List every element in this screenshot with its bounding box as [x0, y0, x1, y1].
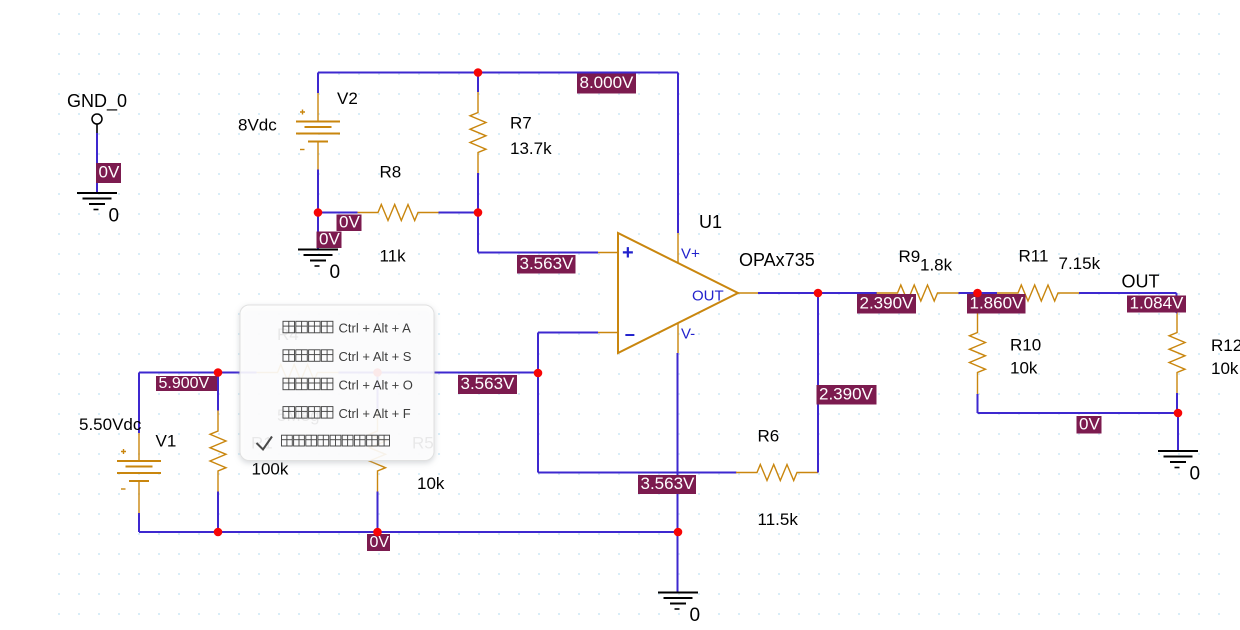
ground 0 — [1158, 451, 1200, 485]
svg-text:7.15k: 7.15k — [1059, 254, 1101, 273]
wire — [537, 333, 539, 473]
svg-text:10k: 10k — [1010, 359, 1038, 378]
wire — [318, 212, 358, 214]
svg-text:0V: 0V — [370, 534, 390, 551]
svg-text:OPAx735: OPAx735 — [739, 250, 815, 270]
value 100k — [252, 460, 289, 479]
wire — [139, 531, 678, 533]
node voltage label 1.860V — [967, 293, 1026, 313]
svg-text:0: 0 — [1190, 464, 1201, 485]
value 11k — [380, 247, 407, 266]
svg-text:100k: 100k — [252, 460, 289, 479]
node voltage label 2.390V — [857, 293, 916, 313]
value 10k — [417, 474, 445, 493]
value 7.15k — [1059, 254, 1101, 273]
menu item screen translate — [283, 406, 411, 421]
resistor R10 — [970, 293, 986, 395]
svg-text:Ctrl + Alt + F: Ctrl + Alt + F — [339, 406, 411, 421]
junction — [1174, 409, 1183, 418]
svg-text:R11: R11 — [1019, 247, 1049, 266]
value 1.8k — [920, 256, 953, 275]
svg-text:0V: 0V — [1079, 414, 1100, 433]
svg-text:Ctrl + Alt + S: Ctrl + Alt + S — [339, 349, 412, 364]
svg-text:1.084V: 1.084V — [1130, 294, 1185, 313]
menu item hide window checkbox — [257, 435, 390, 449]
svg-text:R6: R6 — [758, 427, 780, 446]
node voltage label 0V — [337, 212, 362, 231]
resistor R6 — [736, 465, 818, 481]
junction — [973, 289, 982, 298]
svg-text:R7: R7 — [510, 114, 532, 133]
value 5.50Vdc — [79, 415, 142, 434]
label V1 — [156, 432, 177, 451]
node voltage label 2.390V — [817, 384, 877, 404]
wire — [317, 213, 319, 250]
svg-text:3.563V: 3.563V — [641, 474, 696, 493]
junction — [214, 368, 223, 377]
svg-text:OUT: OUT — [1122, 272, 1160, 292]
wire — [677, 73, 679, 234]
node voltage label 3.563V — [638, 474, 696, 494]
wire — [477, 173, 479, 213]
svg-text:0: 0 — [690, 605, 701, 626]
label R12 — [1211, 336, 1240, 355]
wire — [138, 373, 140, 434]
wire — [217, 492, 219, 533]
label R11 — [1019, 247, 1049, 266]
resistor R1 — [210, 410, 226, 492]
svg-text:0: 0 — [330, 262, 341, 283]
node voltage label 0V — [96, 163, 121, 183]
label R8 — [380, 163, 402, 182]
net label OUT — [1122, 272, 1160, 292]
svg-text:3.563V: 3.563V — [520, 254, 575, 273]
wire — [1177, 413, 1179, 451]
wire — [138, 513, 140, 532]
wire — [217, 373, 219, 411]
resistor R9 — [877, 285, 959, 301]
value 5Meg — [277, 406, 320, 425]
svg-text:5.900V: 5.900V — [159, 375, 210, 392]
value 13.7k — [510, 139, 552, 158]
value OPAx735 — [739, 250, 815, 270]
menu item screen OCR — [283, 377, 413, 392]
wire — [677, 353, 679, 593]
wire — [758, 292, 877, 294]
label R10 — [1010, 336, 1041, 355]
svg-text:5.50Vdc: 5.50Vdc — [79, 415, 142, 434]
junction — [474, 208, 483, 217]
wire — [317, 170, 319, 213]
svg-text:V2: V2 — [337, 89, 358, 108]
svg-text:V1: V1 — [156, 432, 177, 451]
svg-text:+: + — [622, 242, 634, 264]
label R9 — [899, 247, 921, 266]
svg-text:V+: V+ — [681, 246, 700, 263]
node GND_0 bubble — [92, 114, 102, 133]
resistor R12 — [1169, 312, 1185, 394]
node voltage label 0V — [317, 229, 342, 248]
wire — [959, 292, 998, 294]
value 11.5k — [758, 510, 799, 529]
wire — [1176, 393, 1178, 414]
wire — [477, 73, 479, 93]
svg-text:U1: U1 — [699, 212, 722, 232]
svg-text:8.000V: 8.000V — [580, 73, 635, 92]
wire — [817, 293, 819, 473]
node voltage label 3.563V — [517, 254, 576, 274]
svg-text:8Vdc: 8Vdc — [238, 116, 277, 135]
svg-text:0: 0 — [109, 206, 120, 227]
value 10k — [1211, 359, 1239, 378]
junction — [814, 289, 823, 298]
label V2 — [337, 89, 358, 108]
svg-text:11.5k: 11.5k — [758, 510, 799, 529]
wire — [1176, 312, 1179, 314]
wire — [1079, 292, 1177, 294]
svg-text:GND_0: GND_0 — [67, 91, 127, 112]
svg-text:11k: 11k — [380, 247, 407, 266]
wire — [538, 332, 598, 334]
wire — [139, 372, 257, 374]
svg-text:2.390V: 2.390V — [819, 384, 874, 403]
ground 0 — [77, 193, 119, 227]
junction — [474, 68, 483, 77]
node voltage label 0V — [1077, 414, 1102, 433]
resistor R5 — [370, 410, 386, 492]
svg-text:R8: R8 — [380, 163, 402, 182]
label R4 — [277, 325, 299, 344]
net label GND_0 — [67, 91, 127, 112]
svg-text:10k: 10k — [1211, 359, 1239, 378]
junction — [373, 528, 382, 537]
wire — [377, 373, 379, 411]
menu item screen record — [283, 349, 412, 364]
svg-text:−: − — [625, 325, 636, 345]
resistor R7 — [470, 92, 486, 174]
svg-text:0V: 0V — [339, 212, 360, 231]
menu item screen capture — [283, 321, 411, 336]
node voltage label 0V — [367, 534, 390, 551]
label R5 — [412, 434, 434, 453]
svg-text:2.390V: 2.390V — [860, 293, 915, 312]
svg-text:Ctrl + Alt + O: Ctrl + Alt + O — [339, 377, 413, 392]
node voltage label 3.563V — [458, 374, 517, 394]
svg-text:V-: V- — [681, 326, 695, 343]
resistor R8 — [357, 205, 439, 221]
node voltage label 1.084V — [1127, 294, 1186, 313]
wire — [377, 492, 379, 533]
wire — [477, 213, 479, 253]
resistor R11 — [997, 285, 1079, 301]
resistor R4 — [257, 365, 339, 381]
svg-text:0V: 0V — [99, 163, 120, 182]
junction — [674, 528, 683, 537]
wire — [318, 72, 678, 74]
value 8Vdc — [238, 116, 277, 135]
wire — [439, 212, 479, 214]
dc source V1 — [117, 433, 161, 513]
svg-text:1.8k: 1.8k — [920, 256, 953, 275]
label R7 — [510, 114, 532, 133]
node voltage label 8.000V — [577, 73, 636, 93]
node voltage label 5.900V — [156, 375, 217, 392]
svg-text:R9: R9 — [899, 247, 921, 266]
svg-text:R10: R10 — [1010, 336, 1041, 355]
svg-text:OUT: OUT — [692, 288, 724, 305]
svg-text:0V: 0V — [319, 229, 340, 248]
label R1 — [251, 434, 273, 453]
wire — [317, 73, 319, 94]
svg-text:Ctrl + Alt + A: Ctrl + Alt + A — [339, 321, 412, 336]
value 10k — [1010, 359, 1038, 378]
svg-text:10k: 10k — [417, 474, 445, 493]
svg-text:3.563V: 3.563V — [461, 374, 516, 393]
dc source V2 — [296, 93, 340, 170]
wire — [978, 412, 1179, 414]
label R6 — [758, 427, 780, 446]
wire — [339, 372, 539, 374]
wire — [1176, 293, 1178, 313]
junction — [373, 368, 382, 377]
wire — [977, 394, 979, 413]
junction — [534, 369, 543, 378]
svg-text:R12: R12 — [1211, 336, 1240, 355]
wire — [538, 472, 737, 474]
junction — [314, 208, 323, 217]
op-amp U1 — [598, 233, 758, 353]
wire — [478, 252, 598, 254]
junction — [214, 528, 223, 537]
ground 0 — [658, 593, 700, 627]
ground 0 — [298, 250, 340, 284]
label U1 — [699, 212, 722, 232]
wire — [96, 133, 98, 193]
svg-text:13.7k: 13.7k — [510, 139, 552, 158]
popup menu panel — [240, 305, 434, 461]
